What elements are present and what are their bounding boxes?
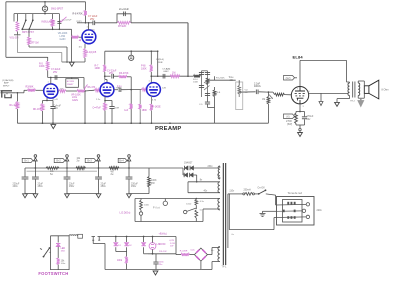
wire heater top xyxy=(135,198,216,200)
resistor 1M tail xyxy=(170,75,180,78)
resistor PSU R1 xyxy=(46,167,59,170)
svg-text:1W: 1W xyxy=(170,245,174,247)
svg-text:0.1u: 0.1u xyxy=(117,86,122,88)
diode clamp 2 xyxy=(126,237,128,243)
svg-text:1M: 1M xyxy=(245,92,248,94)
pot volume wiper mark xyxy=(79,39,81,42)
diode D3 xyxy=(184,173,188,177)
earth wire inlet xyxy=(263,210,277,212)
footswitch box xyxy=(51,236,70,270)
ground OT primary xyxy=(335,102,340,106)
resistor GAIN pot xyxy=(77,90,85,93)
chassis ground mains xyxy=(260,212,266,214)
capacitor 2n2 in RC xyxy=(123,12,125,17)
capacitor PSU C1 220uF xyxy=(24,168,26,177)
svg-text:0v: 0v xyxy=(200,209,203,211)
svg-text:2w: 2w xyxy=(111,174,114,176)
tube V3A cathode network xyxy=(104,96,106,100)
LED footswitch xyxy=(57,236,59,243)
wire primary down lead xyxy=(227,194,229,248)
wire bridge bottom xyxy=(200,261,202,269)
switch SW-B bright xyxy=(28,28,30,30)
svg-text:1M: 1M xyxy=(262,99,265,101)
wire inlet live across xyxy=(277,203,307,206)
wire jack down xyxy=(92,240,94,243)
svg-text:RK-1K5: RK-1K5 xyxy=(33,109,42,111)
wire interstage coupling xyxy=(105,75,111,77)
svg-text:(G2): (G2) xyxy=(286,77,291,80)
tag B2 xyxy=(54,158,65,162)
svg-text:R3-470K: R3-470K xyxy=(119,72,129,75)
ground bus preamp xyxy=(17,122,268,124)
wire gnd rail pair2 xyxy=(67,193,99,195)
svg-text:2W: 2W xyxy=(151,182,155,185)
svg-text:1N4: 1N4 xyxy=(61,251,66,253)
LED pilot circle xyxy=(139,212,142,215)
svg-text:R6-47K: R6-47K xyxy=(88,87,96,89)
EL84 plate line xyxy=(295,90,305,92)
ground C3 xyxy=(65,194,70,198)
capacitor tB1 xyxy=(205,72,210,74)
svg-text:(5W): (5W) xyxy=(287,123,292,126)
inlet circle 1 xyxy=(306,203,309,206)
capacitor PSU C5 220uF xyxy=(128,168,130,177)
resistor pilot right bottom xyxy=(195,210,198,218)
capacitor CY 22uF stage3 xyxy=(111,74,113,79)
stub arrow down xyxy=(320,93,322,101)
relay bus xyxy=(101,236,176,238)
tag screen grid xyxy=(284,76,295,81)
pot master wiper xyxy=(269,95,272,99)
resistor R8 470K on border drop xyxy=(85,2,87,11)
inlet circle 3 xyxy=(306,215,309,218)
speaker xyxy=(364,86,369,94)
svg-text:R7/22K: R7/22K xyxy=(118,25,127,28)
svg-text:GAIN: GAIN xyxy=(60,38,66,41)
svg-text:100R: 100R xyxy=(114,107,120,109)
svg-text:220v: 220v xyxy=(317,209,323,212)
pilot lamp circle xyxy=(164,199,166,202)
svg-text:B+3: B+3 xyxy=(87,160,92,163)
svg-text:D1: D1 xyxy=(118,245,122,247)
tag cathode xyxy=(284,114,295,119)
resistor middle tap2 xyxy=(139,90,141,105)
svg-text:R-4(1)K5: R-4(1)K5 xyxy=(87,51,97,54)
svg-text:B+4: B+4 xyxy=(119,160,124,163)
transistor LND150 xyxy=(149,243,156,250)
resistor 100k relay xyxy=(125,257,128,264)
resistor bridge feed xyxy=(181,253,190,256)
tube V1 triode xyxy=(82,30,96,44)
small circle bottom xyxy=(184,210,187,213)
wire switch to inlet xyxy=(266,194,276,195)
jack plug A xyxy=(92,236,96,238)
wire top node to NFB corner xyxy=(131,22,188,24)
resistor cathode V3B xyxy=(150,104,153,111)
inlet pins bottom xyxy=(287,216,289,219)
wire HT bus xyxy=(25,167,183,169)
node B+ circle symbol xyxy=(130,50,132,52)
pot TONE gray box xyxy=(236,82,243,110)
svg-text:1M: 1M xyxy=(172,71,175,74)
svg-text:GAIN: GAIN xyxy=(72,99,78,102)
ground C4 xyxy=(96,194,101,198)
resistor volume pot xyxy=(72,36,79,39)
capacitor bottom tone xyxy=(205,101,210,103)
inlet outer box xyxy=(277,197,315,226)
svg-text:1/4w: 1/4w xyxy=(61,263,66,265)
svg-text:6v~: 6v~ xyxy=(211,250,215,252)
wire to small circle xyxy=(187,208,196,211)
svg-text:2n+10uF: 2n+10uF xyxy=(119,8,129,11)
resistor footswitch 10k xyxy=(57,258,60,265)
svg-text:25V: 25V xyxy=(109,72,114,75)
wire relay feed xyxy=(175,237,177,254)
capacitor PSU C4 22uF xyxy=(98,168,100,177)
svg-text:1000: 1000 xyxy=(144,205,150,207)
resistor plate V2A 100K xyxy=(47,57,49,61)
wire gnd rail pair1 xyxy=(25,193,35,195)
wire neutral path xyxy=(228,194,230,230)
svg-text:C-5: C-5 xyxy=(199,104,203,106)
svg-text:230v: 230v xyxy=(208,166,214,168)
transformer PT aux xyxy=(218,247,220,262)
transformer OT primary xyxy=(348,83,350,96)
pot arrows tone stack xyxy=(204,79,210,84)
svg-text:0v: 0v xyxy=(232,234,235,236)
capacitor out coupling xyxy=(162,74,164,79)
wire tap 8v xyxy=(188,181,220,183)
wire switch rail xyxy=(22,28,71,30)
EL84 cathode split xyxy=(296,111,305,113)
capacitor PSU C2 22uF xyxy=(34,168,36,177)
wire B+ rail middle xyxy=(105,50,158,52)
svg-text:8 Ohm: 8 Ohm xyxy=(382,89,389,92)
svg-text:100K: 100K xyxy=(95,67,101,70)
node junction on top wire xyxy=(44,1,46,3)
node flag B3 xyxy=(98,161,100,168)
wire inlet earth across xyxy=(277,210,303,212)
tube EL84 xyxy=(291,87,308,104)
wire tone vert A xyxy=(201,71,203,97)
node flag B4 xyxy=(128,161,130,168)
tag B4 xyxy=(118,158,127,162)
lamp LP1 indicator circle xyxy=(44,2,46,6)
resistor bleeder 100K xyxy=(148,168,150,177)
resistor plate 100K stage4 xyxy=(150,65,153,72)
svg-text:SW1-SPST: SW1-SPST xyxy=(51,8,64,11)
wire OT sec top xyxy=(357,81,359,83)
svg-text:1000: 1000 xyxy=(186,204,192,206)
bridge outline xyxy=(194,248,207,261)
svg-text:RT-250K: RT-250K xyxy=(216,78,225,80)
transformer PT heater xyxy=(218,199,220,211)
svg-text:4.7k: 4.7k xyxy=(152,99,157,101)
transformer OT core xyxy=(352,82,354,98)
svg-text:FOOTSWITCH: FOOTSWITCH xyxy=(38,271,68,276)
capacitor 10uF lnd xyxy=(155,254,157,262)
wire clamp join xyxy=(116,251,127,253)
node flag B2 xyxy=(66,161,68,168)
wire W2 gray xyxy=(16,35,18,53)
gray echo line xyxy=(27,170,98,172)
pot GAIN wiper xyxy=(85,85,88,89)
svg-text:R-8 470K: R-8 470K xyxy=(73,13,84,16)
svg-text:12B: 12B xyxy=(162,87,166,89)
resistor PSU R3 xyxy=(109,167,119,170)
resistor R2 68K grid xyxy=(28,89,36,92)
wire rail right end down xyxy=(157,51,159,76)
svg-text:180K: 180K xyxy=(142,110,148,112)
transformer OT secondary xyxy=(358,83,360,96)
pot wiper arrow xyxy=(61,17,67,22)
tube V3B triode xyxy=(147,83,161,97)
inlet circle 2 xyxy=(302,209,305,212)
wire heater bottom xyxy=(135,221,203,223)
wire bridge right xyxy=(207,254,212,256)
svg-text:9: 9 xyxy=(309,91,311,93)
svg-text:R2/68K: R2/68K xyxy=(26,86,34,89)
svg-text:TR-2: TR-2 xyxy=(350,100,356,102)
resistor grid stopper EL84 xyxy=(275,93,285,96)
ground bottom rail xyxy=(153,271,158,275)
EL84 grid dashes xyxy=(295,93,297,95)
wire B+ top el84 xyxy=(299,60,301,86)
tube V3A triode xyxy=(100,83,114,97)
ground for V1 cathode xyxy=(69,62,74,66)
pot TONE element xyxy=(238,80,240,85)
wire inlet neutral across xyxy=(277,216,307,219)
svg-text:640V: 640V xyxy=(164,71,170,73)
svg-text:1: 1 xyxy=(48,81,50,83)
svg-text:P i l o t: P i l o t xyxy=(153,206,160,209)
svg-text:25V: 25V xyxy=(90,18,95,21)
tube V2A triode xyxy=(44,84,58,98)
capacitor tA1 xyxy=(199,72,204,74)
svg-text:PREAMP: PREAMP xyxy=(155,126,182,132)
wire nfb to tone xyxy=(188,75,194,77)
resistor pilot left 1000 xyxy=(140,199,142,201)
tag relay xyxy=(78,234,83,238)
wire plate node down xyxy=(83,78,85,89)
svg-text:TF-1: TF-1 xyxy=(222,267,228,269)
wire tone wiper out xyxy=(243,91,256,93)
svg-text:1: 1 xyxy=(149,80,151,82)
svg-text:22(P): 22(P) xyxy=(76,21,82,23)
svg-text:6.3v: 6.3v xyxy=(200,201,205,203)
svg-text:R-B: R-B xyxy=(217,92,221,94)
resistor R4 1K5 cathode V1 xyxy=(84,48,87,58)
wire primary lead xyxy=(228,193,243,195)
wire gain pot node xyxy=(84,90,86,92)
svg-text:250mA: 250mA xyxy=(244,188,252,191)
inlet inner box xyxy=(283,200,303,223)
resistor plate 100K stage3 xyxy=(103,65,106,72)
wire volume pot ground leg xyxy=(71,29,73,62)
svg-text:On-Off: On-Off xyxy=(258,188,265,190)
EL84 cathode xyxy=(297,97,304,99)
svg-text:L.E.D(On): L.E.D(On) xyxy=(120,212,131,215)
relay coil xyxy=(69,235,77,236)
capacitor tB2 xyxy=(205,93,210,95)
wire ground box xyxy=(66,61,68,63)
wire lnd mid xyxy=(144,253,148,255)
resistor pilot right top xyxy=(195,199,198,205)
transformer PT sec HT xyxy=(218,166,220,179)
diode clamp 1 xyxy=(115,237,117,243)
wire tone vert B xyxy=(207,71,209,97)
svg-text:400v: 400v xyxy=(13,185,19,188)
wire plate drop V3b xyxy=(150,51,152,64)
resistor RT 1M vertical xyxy=(28,29,30,37)
switch SW-A xyxy=(21,28,23,30)
svg-text:3: 3 xyxy=(293,100,295,102)
svg-text:CY-A(B): CY-A(B) xyxy=(162,67,170,70)
svg-text:6: 6 xyxy=(104,80,106,82)
wire plate drop V3a xyxy=(104,51,106,64)
inlet pins top xyxy=(287,202,289,205)
wire W1 to ground rail xyxy=(29,46,67,48)
wire top border xyxy=(6,1,86,3)
svg-text:1uF: 1uF xyxy=(124,110,129,112)
bridge diode marks xyxy=(196,250,199,253)
diode D1 xyxy=(185,166,189,170)
svg-text:(K): (K) xyxy=(79,46,82,48)
svg-text:50v: 50v xyxy=(307,118,312,121)
resistor R7 22K in RC xyxy=(118,21,131,24)
svg-text:100K: 100K xyxy=(193,82,199,84)
svg-text:(1)JACK(B): (1)JACK(B) xyxy=(2,79,13,82)
svg-text:BRT-SPST: BRT-SPST xyxy=(22,31,34,34)
svg-text:C=.047uF: C=.047uF xyxy=(62,20,72,22)
wire diodes to xfmr xyxy=(194,167,218,169)
transformer PT core xyxy=(222,163,224,265)
resistor tone input xyxy=(194,75,201,78)
capacitor C .047uF xyxy=(57,20,61,22)
EL84 grid2 dashes xyxy=(295,95,297,97)
wire under VOL resistor xyxy=(14,34,21,36)
wire OT sec bottom xyxy=(357,96,359,99)
parallel RC box wire xyxy=(117,14,131,23)
svg-text:ECC83: ECC83 xyxy=(67,81,75,83)
svg-text:8v: 8v xyxy=(200,180,203,182)
capacitor 2.2uF coupling xyxy=(255,90,257,95)
svg-text:B+2: B+2 xyxy=(56,160,61,163)
capacitor CY 22uF xyxy=(92,21,94,26)
wire EL84 cathode down xyxy=(299,104,301,112)
svg-text:D2: D2 xyxy=(129,245,133,247)
ground arrow main bus xyxy=(51,125,56,129)
resistor cathode V3A xyxy=(104,101,106,103)
svg-text:22k 1W: 22k 1W xyxy=(159,251,167,253)
resistor middle tap xyxy=(130,104,133,110)
svg-text:AMP: AMP xyxy=(4,82,9,85)
wire tap 40v xyxy=(187,182,189,193)
wire input node xyxy=(15,92,24,94)
tube V3B cathode xyxy=(151,96,153,104)
wire plate node across xyxy=(48,77,84,79)
wire cut cap line xyxy=(58,14,60,30)
svg-text:450v: 450v xyxy=(38,185,44,188)
svg-text:C-4+uF: C-4+uF xyxy=(53,105,61,107)
wire V1 plate pin xyxy=(88,23,90,30)
capacitor cathode V2A xyxy=(52,101,54,107)
resistor 1M grid EL84 xyxy=(267,92,269,96)
svg-text:RT-1M: RT-1M xyxy=(31,41,38,44)
svg-text:INSULATED: INSULATED xyxy=(42,21,56,24)
resistor 270R cathode xyxy=(295,112,297,114)
svg-text:Toma de red: Toma de red xyxy=(288,191,303,195)
switch mains on-off xyxy=(258,193,260,195)
node after cap xyxy=(268,91,270,93)
svg-text:40v: 40v xyxy=(204,191,209,193)
wire inner box top xyxy=(14,13,59,15)
transformer PT sec mid xyxy=(218,182,220,193)
svg-text:100K: 100K xyxy=(39,65,45,68)
resistor VOL 1M vertical xyxy=(16,14,18,22)
capacitor PSU C3 22uF xyxy=(66,168,68,177)
node flag B1 xyxy=(34,161,36,168)
svg-text:100K: 100K xyxy=(141,67,147,70)
svg-text:R1-1M: R1-1M xyxy=(10,104,17,107)
svg-text:(P): (P) xyxy=(92,30,95,32)
diode lnd xyxy=(143,237,145,243)
wire aux bottom xyxy=(212,261,220,263)
tag B1 xyxy=(22,158,33,162)
ground OT secondary xyxy=(358,101,364,107)
wire V1 cathode xyxy=(84,44,86,49)
svg-text:25V: 25V xyxy=(53,71,58,74)
wire left border xyxy=(5,2,7,58)
wire diode row2 xyxy=(182,168,184,175)
svg-text:2.2u: 2.2u xyxy=(96,99,101,101)
svg-text:25v: 25v xyxy=(159,264,163,266)
svg-text:450v: 450v xyxy=(131,185,137,188)
ground circle el84 xyxy=(299,128,301,130)
resistor 470K coupling xyxy=(119,75,128,78)
svg-text:100k: 100k xyxy=(117,260,123,262)
wire V2A plate up xyxy=(50,78,52,84)
resistor bass leg xyxy=(214,87,216,90)
wire plate V3b to tube xyxy=(150,72,152,83)
capacitor cathode V3A xyxy=(111,101,113,107)
svg-text:C=47uF: C=47uF xyxy=(93,107,102,109)
wire bottom of control block xyxy=(6,56,48,58)
tag B3 xyxy=(85,158,96,162)
svg-text:25V: 25V xyxy=(54,108,59,110)
svg-text:400Vu: 400Vu xyxy=(254,85,261,88)
wire to grid stopper xyxy=(268,91,273,93)
inlet pins mid xyxy=(283,210,285,213)
resistor tB xyxy=(206,78,209,85)
capacitor plate bypass xyxy=(54,75,56,80)
wire NFB vertical xyxy=(187,23,189,76)
wire lnd out xyxy=(148,253,176,255)
svg-text:12AX7: 12AX7 xyxy=(67,83,74,86)
wire EL84 plate out xyxy=(309,92,348,94)
wire coupling to center tap xyxy=(127,76,131,78)
ground C1 xyxy=(23,194,28,198)
wire treble out xyxy=(208,79,236,81)
svg-text:Tone: Tone xyxy=(229,77,235,79)
svg-text:110v: 110v xyxy=(229,190,235,192)
wire fuse to switch xyxy=(254,193,258,195)
tube V2A cathode network xyxy=(46,98,48,100)
svg-text:INPUT: INPUT xyxy=(3,85,10,87)
wire res to box bottom xyxy=(57,265,59,270)
resistor cut pot body xyxy=(52,14,54,19)
wire cathode ground rail V1 xyxy=(62,61,85,63)
